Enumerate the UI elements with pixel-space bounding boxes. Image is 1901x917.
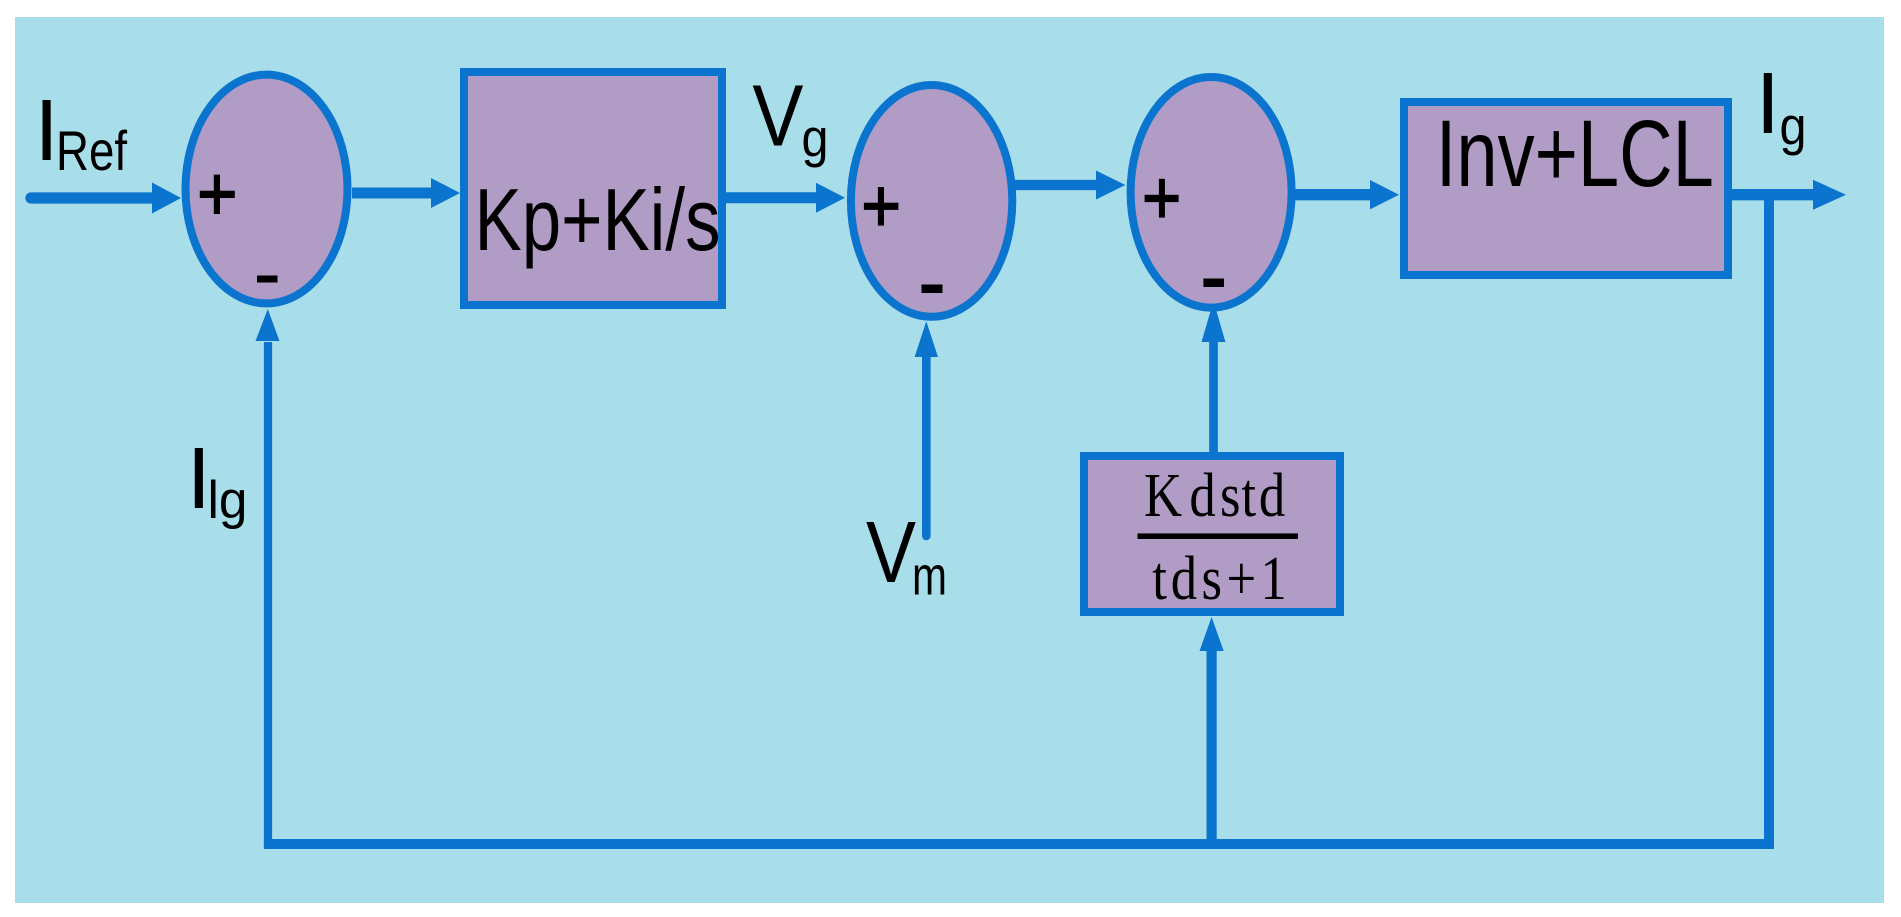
- svg-text:g: g: [802, 109, 829, 169]
- svg-text:V: V: [866, 504, 916, 601]
- svg-text:I: I: [1756, 55, 1780, 152]
- svg-text:Ref: Ref: [56, 119, 127, 182]
- svg-text:V: V: [752, 68, 803, 165]
- svg-text:tds+1: tds+1: [1152, 545, 1286, 613]
- svg-text:lg: lg: [208, 471, 248, 530]
- svg-text:Kp+Ki/s: Kp+Ki/s: [475, 170, 721, 269]
- svg-text:m: m: [912, 544, 947, 606]
- svg-text:g: g: [1780, 97, 1807, 157]
- svg-text:Kdstd: Kdstd: [1144, 462, 1285, 530]
- svg-text:Inv+LCL: Inv+LCL: [1436, 101, 1714, 207]
